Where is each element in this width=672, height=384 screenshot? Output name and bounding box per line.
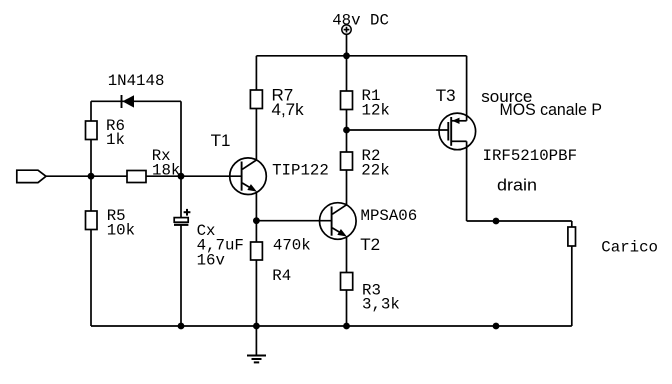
svg-text:18k: 18k xyxy=(152,162,180,180)
svg-text:MPSA06: MPSA06 xyxy=(361,207,418,225)
svg-text:4,7k: 4,7k xyxy=(272,100,305,119)
svg-text:MOS canale P: MOS canale P xyxy=(500,100,603,119)
wire Cx vertical column upper xyxy=(180,101,182,217)
resistor R1 xyxy=(341,91,353,110)
power 48v DC xyxy=(342,25,351,34)
wire Carico column xyxy=(571,221,573,326)
svg-text:IRF5210PBF: IRF5210PBF xyxy=(483,147,578,165)
svg-text:10k: 10k xyxy=(107,221,135,239)
wire drain to Carico xyxy=(467,220,572,222)
svg-text:drain: drain xyxy=(497,176,537,195)
wire 48v to top rail xyxy=(346,34,348,56)
svg-text:470k: 470k xyxy=(273,237,311,255)
resistor R3 xyxy=(341,273,353,291)
wire T3 drain vertical xyxy=(466,141,468,221)
transistor T3 MOSFET xyxy=(439,113,476,150)
node dot Cx bottom xyxy=(178,323,185,330)
node dot bottom rail xyxy=(493,323,500,330)
resistor R5 xyxy=(86,211,98,230)
transistor T1 TIP122 xyxy=(230,158,267,195)
resistor R7 xyxy=(250,90,262,109)
svg-text:T1: T1 xyxy=(211,131,231,150)
wire T1 emitter to T2 base xyxy=(256,220,331,222)
node dot Rx/Cx xyxy=(178,173,185,180)
svg-text:3,3k: 3,3k xyxy=(362,296,400,314)
node dot ground xyxy=(253,323,260,330)
wire T3 source vertical xyxy=(466,56,468,121)
wire diode top horizontal xyxy=(91,100,181,102)
svg-text:T3: T3 xyxy=(436,86,456,105)
svg-text:Carico: Carico xyxy=(601,238,658,256)
capacitor Cx xyxy=(174,218,188,223)
resistor R4 xyxy=(251,242,263,260)
input terminal xyxy=(17,170,46,182)
diode 1N4148 xyxy=(121,95,123,108)
svg-text:R4: R4 xyxy=(272,267,291,285)
ground xyxy=(255,326,257,356)
svg-text:1N4148: 1N4148 xyxy=(108,72,165,90)
wire T1 emitter / R4 column xyxy=(255,192,257,326)
wire bottom rail xyxy=(91,325,572,327)
svg-text:TIP122: TIP122 xyxy=(272,162,329,180)
wire Cx vertical column lower xyxy=(180,225,182,326)
svg-text:1k: 1k xyxy=(106,131,125,149)
wire left vertical column xyxy=(90,101,92,326)
svg-text:T2: T2 xyxy=(360,235,380,254)
node dot R3 bottom xyxy=(343,323,350,330)
wire input to T1 base xyxy=(46,175,242,177)
resistor R2 xyxy=(341,152,353,170)
svg-text:12k: 12k xyxy=(362,102,390,120)
svg-text:48v DC: 48v DC xyxy=(332,12,389,30)
wire T2 emitter / R3 column xyxy=(346,237,348,327)
resistor R6 xyxy=(86,121,98,140)
node dot drain wire xyxy=(493,218,500,225)
node dot input xyxy=(88,173,95,180)
node dot T1 emitter xyxy=(253,217,260,224)
resistor Rx xyxy=(127,171,146,183)
svg-text:22k: 22k xyxy=(361,162,389,180)
svg-text:16v: 16v xyxy=(197,251,225,269)
wire R7/T1 collector column xyxy=(255,56,257,160)
node dot gate xyxy=(343,127,350,134)
wire gate R1R2 to T3 xyxy=(347,129,449,131)
wire top rail xyxy=(256,55,466,57)
resistor Carico xyxy=(568,227,576,246)
transistor T2 MPSA06 xyxy=(320,203,357,240)
wire R1/R2/T2 column xyxy=(346,56,348,206)
node dot top rail xyxy=(343,52,350,59)
